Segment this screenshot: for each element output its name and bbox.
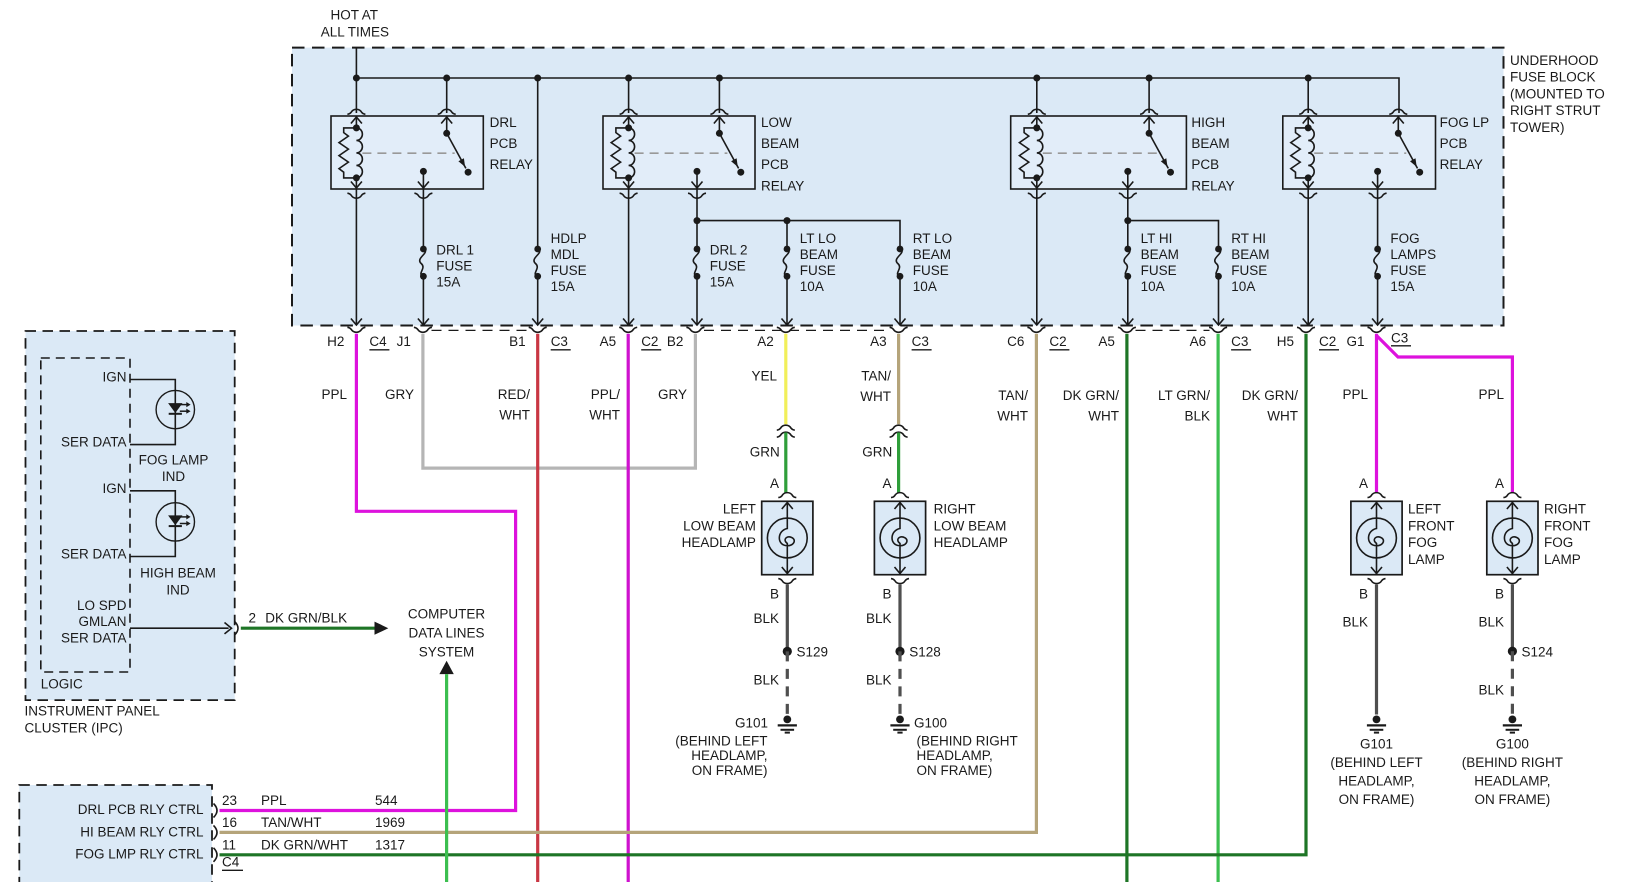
svg-text:BLK: BLK xyxy=(1478,615,1504,630)
svg-text:BLK: BLK xyxy=(866,611,892,626)
svg-text:A2: A2 xyxy=(757,334,774,349)
label wire YEL xyxy=(751,369,777,384)
wire relay2 coil to A5 xyxy=(623,189,634,325)
svg-text:A5: A5 xyxy=(1098,334,1115,349)
svg-text:LAMPS: LAMPS xyxy=(1390,247,1436,262)
svg-text:HEADLAMP: HEADLAMP xyxy=(934,535,1008,550)
label wire PPL xyxy=(1478,387,1504,402)
pin 2 xyxy=(249,610,257,625)
svg-text:BEAM: BEAM xyxy=(1231,247,1269,262)
svg-text:G101: G101 xyxy=(1360,737,1393,752)
connector pin A5 xyxy=(1098,327,1136,349)
wire BLK S128 to G100 xyxy=(866,651,900,714)
pin B xyxy=(770,587,779,602)
svg-text:10A: 10A xyxy=(800,279,824,294)
svg-text:(BEHIND LEFT: (BEHIND LEFT xyxy=(675,733,767,748)
svg-text:A6: A6 xyxy=(1190,334,1207,349)
wire BLK right low beam B to S128 xyxy=(866,585,900,652)
svg-text:GRN: GRN xyxy=(750,444,780,459)
wire relay4 coil to H5 xyxy=(1303,189,1314,325)
svg-text:RIGHT STRUT: RIGHT STRUT xyxy=(1510,103,1601,118)
wire bus drop to relay1 switch xyxy=(446,78,448,113)
wire GRY J1 to B2 xyxy=(423,334,696,468)
wire RT LO fuse to A3 xyxy=(895,276,906,325)
wire BLK left fog B to G101 xyxy=(1342,585,1376,715)
wire bus drop to relay2 switch xyxy=(718,78,720,113)
svg-text:HEADLAMP,: HEADLAMP, xyxy=(917,748,993,763)
svg-text:TAN/WHT: TAN/WHT xyxy=(261,815,322,830)
wire FOG fuse to G1 xyxy=(1372,276,1383,325)
svg-text:LT GRN/: LT GRN/ xyxy=(1158,388,1210,403)
connector pin H2 C4 xyxy=(327,327,389,350)
inline connector right low beam xyxy=(890,425,908,437)
svg-text:WHT: WHT xyxy=(860,389,891,404)
svg-text:C2: C2 xyxy=(641,334,658,349)
svg-text:WHT: WHT xyxy=(997,408,1028,423)
relay HIGH BEAM PCB RELAY xyxy=(1011,109,1235,198)
ground G101 left fog xyxy=(1330,716,1422,807)
svg-text:C4: C4 xyxy=(369,334,387,349)
wire DRL2 fuse to B2 xyxy=(692,276,703,325)
label wire RED/WHT xyxy=(498,387,531,422)
svg-text:S128: S128 xyxy=(909,644,941,659)
label GRN right xyxy=(862,444,892,459)
svg-text:DRL: DRL xyxy=(490,115,517,130)
svg-text:BEAM: BEAM xyxy=(1141,247,1179,262)
svg-text:B: B xyxy=(1359,587,1368,602)
svg-text:FOG: FOG xyxy=(1390,231,1419,246)
connector pin C6 C2 xyxy=(1007,327,1069,350)
svg-text:PCB: PCB xyxy=(1191,157,1219,172)
connector pin 11 FOG LMP RLY CTRL xyxy=(214,838,406,862)
inline connector left low beam xyxy=(777,425,795,437)
connector pin J1 xyxy=(397,327,432,349)
wire relay3 coil to C6 xyxy=(1031,189,1042,325)
svg-text:G101: G101 xyxy=(735,715,768,730)
svg-text:16: 16 xyxy=(222,815,237,830)
svg-text:A3: A3 xyxy=(870,334,887,349)
wire DK GRN/WHT circuit 1317 H5 to FOG LMP RLY CTRL xyxy=(220,334,1307,855)
svg-text:B2: B2 xyxy=(667,334,684,349)
svg-text:LT HI: LT HI xyxy=(1141,231,1173,246)
wire HDLP MDL fuse feed xyxy=(537,78,539,249)
svg-text:ON FRAME): ON FRAME) xyxy=(1475,792,1551,807)
wire DK GRN/BLK to computer data lines xyxy=(241,622,388,635)
fuse HDLP MDL 15A xyxy=(534,231,587,294)
svg-text:10A: 10A xyxy=(1141,279,1165,294)
splice S128 xyxy=(895,644,940,659)
wire GMLAN serial data out xyxy=(130,621,238,635)
svg-text:(BEHIND RIGHT: (BEHIND RIGHT xyxy=(917,733,1018,748)
node HOT AT ALL TIMES xyxy=(321,8,389,78)
svg-text:GRY: GRY xyxy=(658,387,687,402)
wire GRN to right low beam A xyxy=(897,433,900,494)
fuse DRL 2 15A xyxy=(693,243,747,290)
svg-text:LOGIC: LOGIC xyxy=(41,676,83,691)
svg-text:DK GRN/WHT: DK GRN/WHT xyxy=(261,838,348,853)
svg-text:BEAM: BEAM xyxy=(913,247,951,262)
label wire TAN/WHT xyxy=(997,388,1028,423)
svg-text:GRY: GRY xyxy=(385,387,414,402)
svg-text:GRN: GRN xyxy=(862,444,892,459)
fuse LT HI BEAM 10A xyxy=(1124,231,1179,294)
wire YEL A2 to connector xyxy=(784,334,787,424)
svg-text:C2: C2 xyxy=(1049,334,1066,349)
wire relay4 output to FOG fuse xyxy=(1377,189,1379,249)
node LO SPD GMLAN SER DATA xyxy=(61,598,127,646)
svg-text:(MOUNTED TO: (MOUNTED TO xyxy=(1510,86,1605,101)
svg-text:544: 544 xyxy=(375,793,398,808)
svg-text:15A: 15A xyxy=(710,275,734,290)
svg-text:SYSTEM: SYSTEM xyxy=(419,645,475,660)
wire relay2 output branch xyxy=(694,189,901,249)
svg-text:INSTRUMENT PANEL: INSTRUMENT PANEL xyxy=(25,703,161,718)
svg-text:RELAY: RELAY xyxy=(1440,157,1483,172)
svg-text:MDL: MDL xyxy=(551,247,580,262)
wire bus drop to relay2 coil xyxy=(628,78,630,113)
svg-text:HEADLAMP,: HEADLAMP, xyxy=(1474,774,1550,789)
wire BLK left low beam B to S129 xyxy=(753,585,787,652)
wire RED/WHT B1 down xyxy=(536,334,539,882)
svg-text:BEAM: BEAM xyxy=(761,136,799,151)
instrument panel cluster enclosure xyxy=(25,331,235,735)
svg-text:FUSE BLOCK: FUSE BLOCK xyxy=(1510,70,1596,85)
svg-text:PPL: PPL xyxy=(1342,387,1368,402)
svg-text:LOW BEAM: LOW BEAM xyxy=(683,518,756,533)
svg-text:SER DATA: SER DATA xyxy=(61,546,127,561)
svg-text:COMPUTER: COMPUTER xyxy=(408,607,486,622)
connector group link J1-B1 xyxy=(432,329,530,331)
connector group link B2-A3 xyxy=(704,329,890,331)
svg-text:LT LO: LT LO xyxy=(800,231,836,246)
pin B xyxy=(882,587,891,602)
svg-text:15A: 15A xyxy=(1390,279,1414,294)
svg-text:PPL: PPL xyxy=(321,387,347,402)
fuse FOG LAMPS 15A xyxy=(1374,231,1436,294)
wire computer data lines down xyxy=(439,661,453,882)
svg-text:DK GRN/: DK GRN/ xyxy=(1063,388,1120,403)
svg-text:B: B xyxy=(770,587,779,602)
fuse RT LO BEAM 10A xyxy=(896,231,952,294)
wire LT HI fuse to A5 xyxy=(1122,276,1133,325)
svg-text:FUSE: FUSE xyxy=(1141,263,1177,278)
label wire DK GRN/WHT xyxy=(1242,388,1299,423)
svg-text:G1: G1 xyxy=(1346,334,1364,349)
svg-text:C3: C3 xyxy=(912,334,929,349)
svg-text:(BEHIND LEFT: (BEHIND LEFT xyxy=(1330,755,1422,770)
wire TAN/WHT circuit 1969 C6 to HI BEAM RLY CTRL xyxy=(220,334,1037,833)
svg-text:PPL: PPL xyxy=(261,793,287,808)
svg-text:CLUSTER (IPC): CLUSTER (IPC) xyxy=(25,720,123,735)
svg-text:HI BEAM RLY CTRL: HI BEAM RLY CTRL xyxy=(80,824,204,839)
svg-text:B: B xyxy=(882,587,891,602)
node COMPUTER DATA LINES SYSTEM xyxy=(408,607,486,660)
label DK GRN/BLK xyxy=(265,610,347,625)
IPC output connector block xyxy=(19,785,212,887)
svg-text:C6: C6 xyxy=(1007,334,1024,349)
relay LOW BEAM PCB RELAY xyxy=(603,109,804,198)
wire bus drop to relay3 switch xyxy=(1148,78,1150,113)
svg-text:RT LO: RT LO xyxy=(913,231,952,246)
svg-text:SER DATA: SER DATA xyxy=(61,434,127,449)
svg-text:FUSE: FUSE xyxy=(436,259,472,274)
svg-text:FUSE: FUSE xyxy=(1231,263,1267,278)
svg-text:BLK: BLK xyxy=(1342,615,1368,630)
connector pin A2 xyxy=(757,327,795,349)
svg-text:IGN: IGN xyxy=(102,370,126,385)
svg-text:YEL: YEL xyxy=(751,369,777,384)
lamp LEFT FRONT FOG LAMP xyxy=(1351,493,1455,584)
svg-text:LAMP: LAMP xyxy=(1544,552,1581,567)
svg-text:H5: H5 xyxy=(1277,334,1294,349)
svg-text:LOW: LOW xyxy=(761,115,792,130)
wire bus drop to relay1 coil xyxy=(355,78,357,113)
svg-text:RELAY: RELAY xyxy=(490,157,533,172)
svg-text:BEAM: BEAM xyxy=(1191,136,1229,151)
label wire PPL/WHT xyxy=(589,387,620,422)
svg-text:C4: C4 xyxy=(222,855,240,870)
IPC logic block xyxy=(41,358,130,691)
svg-text:TAN/: TAN/ xyxy=(998,388,1028,403)
connector pin A3 C3 xyxy=(870,327,932,350)
svg-text:RELAY: RELAY xyxy=(761,178,804,193)
svg-text:FRONT: FRONT xyxy=(1408,518,1455,533)
svg-text:FUSE: FUSE xyxy=(1390,263,1426,278)
svg-text:BEAM: BEAM xyxy=(800,247,838,262)
lamp LEFT LOW BEAM HEADLAMP xyxy=(682,493,813,584)
splice S129 xyxy=(783,644,828,659)
wire HDLP fuse to B1 xyxy=(532,276,543,325)
svg-text:FOG LAMP: FOG LAMP xyxy=(139,452,209,467)
pin A xyxy=(770,476,779,491)
svg-text:TAN/: TAN/ xyxy=(861,369,891,384)
svg-text:H2: H2 xyxy=(327,334,344,349)
svg-text:2: 2 xyxy=(249,610,257,625)
label wire LT GRN/BLK xyxy=(1158,388,1210,423)
svg-text:10A: 10A xyxy=(1231,279,1255,294)
connector C4 xyxy=(222,855,243,871)
svg-text:ON FRAME): ON FRAME) xyxy=(1339,792,1415,807)
svg-text:IND: IND xyxy=(166,582,190,597)
label wire GRY xyxy=(658,387,687,402)
svg-text:LEFT: LEFT xyxy=(1408,501,1441,516)
svg-text:RED/: RED/ xyxy=(498,387,531,402)
svg-text:C3: C3 xyxy=(551,334,568,349)
wire supply bus xyxy=(353,75,1399,114)
svg-text:PPL/: PPL/ xyxy=(591,387,621,402)
LED HIGH BEAM IND xyxy=(61,481,216,598)
svg-text:PCB: PCB xyxy=(761,157,789,172)
connector pin A5 C2 xyxy=(600,327,662,350)
pin B xyxy=(1495,587,1504,602)
svg-text:(BEHIND RIGHT: (BEHIND RIGHT xyxy=(1462,755,1563,770)
svg-text:10A: 10A xyxy=(913,279,937,294)
wire RT HI fuse to A6 xyxy=(1213,276,1224,325)
svg-text:PCB: PCB xyxy=(490,136,518,151)
svg-text:BLK: BLK xyxy=(753,673,779,688)
ground G100 right headlamp xyxy=(890,715,1017,778)
pin A xyxy=(1495,476,1504,491)
wire bus drop to relay3 coil xyxy=(1036,78,1038,113)
svg-text:RIGHT: RIGHT xyxy=(1544,501,1586,516)
svg-text:FUSE: FUSE xyxy=(710,259,746,274)
svg-text:RT HI: RT HI xyxy=(1231,231,1266,246)
relay FOG LP PCB RELAY xyxy=(1283,109,1489,198)
svg-text:RELAY: RELAY xyxy=(1191,178,1234,193)
svg-text:BLK: BLK xyxy=(753,611,779,626)
svg-text:HIGH: HIGH xyxy=(1191,115,1225,130)
svg-text:WHT: WHT xyxy=(1267,408,1298,423)
svg-text:C2: C2 xyxy=(1319,334,1336,349)
svg-text:DRL PCB RLY CTRL: DRL PCB RLY CTRL xyxy=(78,802,204,817)
svg-text:FUSE: FUSE xyxy=(800,263,836,278)
svg-text:C3: C3 xyxy=(1231,334,1248,349)
connector pin B1 C3 xyxy=(509,327,571,350)
fuse LT LO BEAM 10A xyxy=(783,231,838,294)
connector pin A6 C3 xyxy=(1190,327,1252,350)
connector pin H5 C2 xyxy=(1277,327,1339,350)
label GRN left xyxy=(750,444,780,459)
svg-text:11: 11 xyxy=(222,838,236,853)
wire PPL/WHT A5 down xyxy=(627,334,630,882)
fuse RT HI BEAM 10A xyxy=(1215,231,1270,294)
svg-text:HEADLAMP: HEADLAMP xyxy=(682,535,756,550)
svg-text:PCB: PCB xyxy=(1440,136,1468,151)
label wire PPL xyxy=(321,387,347,402)
svg-text:ALL TIMES: ALL TIMES xyxy=(321,24,389,39)
svg-text:A: A xyxy=(1359,476,1368,491)
wire LT LO fuse to A2 xyxy=(782,276,793,325)
svg-text:TOWER): TOWER) xyxy=(1510,120,1565,135)
svg-text:RIGHT: RIGHT xyxy=(934,501,976,516)
svg-text:HDLP: HDLP xyxy=(551,231,587,246)
svg-text:FOG LMP RLY CTRL: FOG LMP RLY CTRL xyxy=(75,847,204,862)
svg-text:IGN: IGN xyxy=(102,481,126,496)
wire DK GRN/WHT A5 down xyxy=(1125,334,1128,882)
wire TAN/WHT A3 to connector xyxy=(897,334,900,424)
svg-text:HEADLAMP,: HEADLAMP, xyxy=(691,748,767,763)
svg-text:A: A xyxy=(1495,476,1504,491)
wire relay3 output branch xyxy=(1124,189,1218,249)
svg-text:WHT: WHT xyxy=(499,407,530,422)
svg-text:IND: IND xyxy=(162,469,186,484)
connector pin 23 DRL PCB RLY CTRL xyxy=(214,793,399,817)
label wire DK GRN/WHT xyxy=(1063,388,1120,423)
svg-text:GMLAN: GMLAN xyxy=(78,614,126,629)
svg-text:DRL 1: DRL 1 xyxy=(436,243,474,258)
wire PPL G1 to left front fog lamp xyxy=(1375,334,1378,493)
pin A xyxy=(882,476,891,491)
underhood fuse block enclosure xyxy=(292,48,1605,326)
wire BLK S124 to G100 xyxy=(1478,651,1512,714)
svg-text:G100: G100 xyxy=(914,715,947,730)
wire relay1 coil to H2 xyxy=(351,189,362,325)
svg-text:J1: J1 xyxy=(397,334,411,349)
lamp RIGHT FRONT FOG LAMP xyxy=(1487,493,1591,584)
wire relay1 output to DRL1 fuse to J1 xyxy=(418,189,429,325)
svg-text:DK GRN/: DK GRN/ xyxy=(1242,388,1299,403)
svg-text:S129: S129 xyxy=(797,644,829,659)
wire BLK S129 to G101 xyxy=(753,651,787,714)
wire GRN to left low beam A xyxy=(784,433,787,494)
svg-text:15A: 15A xyxy=(436,275,460,290)
svg-text:FOG: FOG xyxy=(1408,535,1437,550)
wire PPL G1 branch to right front fog lamp xyxy=(1377,336,1513,494)
label wire PPL xyxy=(1342,387,1368,402)
splice S124 xyxy=(1508,644,1554,659)
svg-text:A: A xyxy=(770,476,779,491)
svg-text:B: B xyxy=(1495,587,1504,602)
svg-text:FRONT: FRONT xyxy=(1544,518,1591,533)
connector group link A5-A6 xyxy=(1136,329,1210,331)
svg-text:C3: C3 xyxy=(1391,331,1408,346)
svg-text:BLK: BLK xyxy=(1184,408,1210,423)
svg-text:UNDERHOOD: UNDERHOOD xyxy=(1510,53,1599,68)
svg-text:LAMP: LAMP xyxy=(1408,552,1445,567)
svg-text:S124: S124 xyxy=(1522,644,1554,659)
fuse DRL 1 15A xyxy=(420,243,474,290)
wire bus drop to relay4 coil xyxy=(1307,78,1309,113)
svg-text:BLK: BLK xyxy=(1478,683,1504,698)
svg-text:A: A xyxy=(882,476,891,491)
connector pin 16 HI BEAM RLY CTRL xyxy=(214,815,406,839)
svg-text:ON FRAME): ON FRAME) xyxy=(917,763,993,778)
LED FOG LAMP IND xyxy=(61,370,208,485)
svg-text:DATA LINES: DATA LINES xyxy=(408,626,484,641)
svg-text:DK GRN/BLK: DK GRN/BLK xyxy=(265,610,347,625)
svg-text:FUSE: FUSE xyxy=(551,263,587,278)
label wire TAN/WHT xyxy=(860,369,891,404)
svg-text:DRL 2: DRL 2 xyxy=(710,243,748,258)
svg-text:ON FRAME): ON FRAME) xyxy=(692,763,768,778)
connector pin B2 xyxy=(667,327,705,349)
svg-text:FOG: FOG xyxy=(1544,535,1573,550)
svg-text:G100: G100 xyxy=(1496,737,1529,752)
connector pin G1 C3 xyxy=(1346,327,1411,349)
wire LT GRN/BLK A6 down xyxy=(1216,334,1219,882)
svg-text:FUSE: FUSE xyxy=(913,263,949,278)
relay DRL PCB RELAY xyxy=(331,109,533,198)
svg-text:1317: 1317 xyxy=(375,838,405,853)
svg-text:15A: 15A xyxy=(551,279,575,294)
svg-text:HEADLAMP,: HEADLAMP, xyxy=(1338,774,1414,789)
svg-text:WHT: WHT xyxy=(589,407,620,422)
pin B xyxy=(1359,587,1368,602)
svg-text:B1: B1 xyxy=(509,334,526,349)
wire PPL circuit 544 H2 to DRL PCB RLY CTRL xyxy=(220,334,516,811)
svg-text:23: 23 xyxy=(222,793,237,808)
svg-text:HIGH BEAM: HIGH BEAM xyxy=(140,566,216,581)
svg-text:A5: A5 xyxy=(600,334,617,349)
svg-text:BLK: BLK xyxy=(866,673,892,688)
svg-text:SER DATA: SER DATA xyxy=(61,630,127,645)
svg-text:LO SPD: LO SPD xyxy=(77,598,127,613)
svg-text:PPL: PPL xyxy=(1478,387,1504,402)
svg-text:WHT: WHT xyxy=(1088,408,1119,423)
svg-text:LEFT: LEFT xyxy=(723,501,756,516)
pin A xyxy=(1359,476,1368,491)
svg-text:LOW BEAM: LOW BEAM xyxy=(934,518,1007,533)
label wire GRY xyxy=(385,387,414,402)
ground G100 right fog xyxy=(1462,716,1563,807)
svg-text:1969: 1969 xyxy=(375,815,405,830)
lamp RIGHT LOW BEAM HEADLAMP xyxy=(874,493,1007,584)
ground G101 left headlamp xyxy=(675,715,797,778)
wire BLK right fog B to S124 xyxy=(1478,585,1512,652)
svg-text:FOG LP: FOG LP xyxy=(1440,115,1490,130)
svg-text:HOT AT: HOT AT xyxy=(331,8,379,23)
